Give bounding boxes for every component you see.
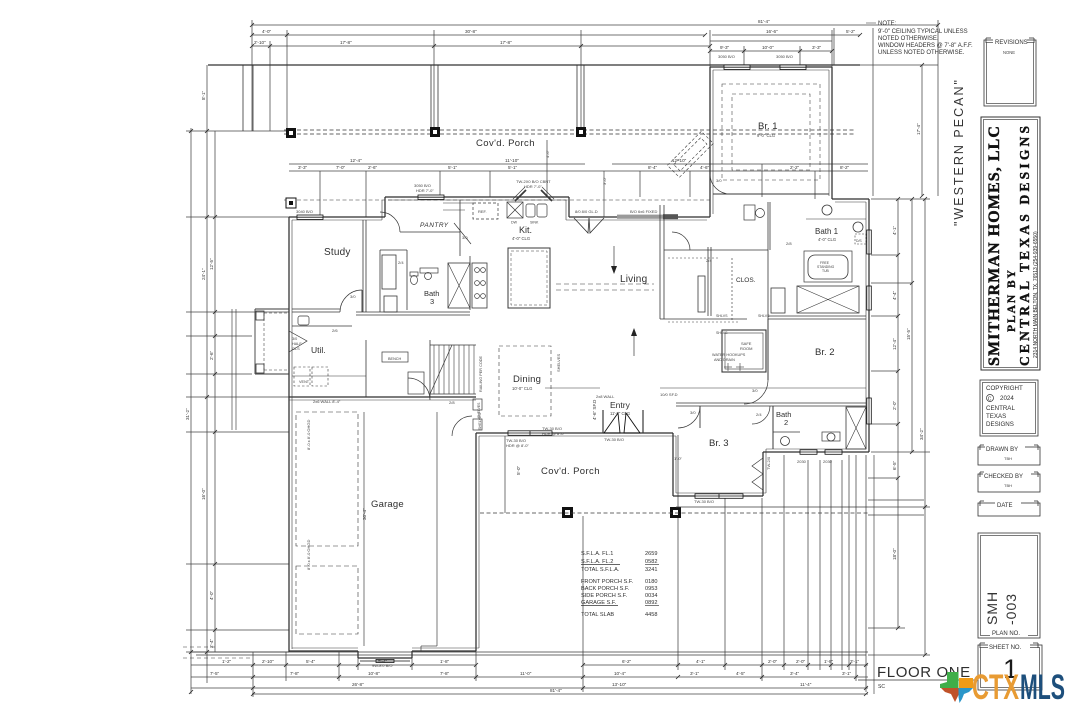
svg-text:Util.: Util. — [311, 345, 326, 355]
svg-text:3'-1": 3'-1" — [690, 671, 700, 676]
closet: stair closet — [382, 255, 396, 289]
WALLSTART — [208, 65, 860, 200]
svg-text:WATER HOOKUPS: WATER HOOKUPS — [712, 353, 746, 357]
porch column square 2 — [430, 127, 440, 137]
DIMSTART — [186, 20, 938, 697]
util: sink box on wall — [298, 316, 309, 325]
INTSTART — [292, 84, 866, 490]
svg-text:2/8: 2/8 — [786, 241, 792, 246]
mud hall shelves boxes — [473, 399, 482, 410]
window: kitchen front 1 — [418, 195, 444, 200]
svg-text:NOTE:: NOTE: — [878, 21, 897, 27]
window: rear wall TW-30 — [508, 431, 552, 436]
svg-text:4'-5": 4'-5" — [736, 671, 746, 676]
wall: util top — [292, 325, 352, 327]
svg-text:B/O 6x6 FIXED: B/O 6x6 FIXED — [630, 209, 657, 214]
svg-text:9'-0" CEILING TYPICAL UNLESS: 9'-0" CEILING TYPICAL UNLESS — [878, 29, 968, 35]
svg-text:Cov'd. Porch: Cov'd. Porch — [476, 138, 535, 149]
dimension line: right col 15'-5" — [911, 199, 913, 452]
water hookup symbols — [727, 363, 729, 371]
svg-text:10/0 SF.D: 10/0 SF.D — [660, 392, 678, 397]
door: util half-glass wedge — [289, 331, 307, 352]
bath1: vanity counter — [806, 218, 866, 220]
exterior wall: br3 left — [672, 433, 674, 496]
bath2: vanity — [773, 431, 800, 433]
CTXMLS logo: texas icon orange quadrant — [959, 678, 973, 688]
dimension extension horizontals right — [871, 198, 930, 200]
window: right wall tub — [867, 230, 872, 254]
svg-text:7'-8": 7'-8" — [440, 671, 450, 676]
interior dim verticals study area — [319, 171, 321, 217]
svg-text:C: C — [988, 396, 992, 402]
drawing title: FLOOR ONE — [858, 664, 975, 690]
svg-text:2'-10": 2'-10" — [254, 40, 266, 45]
svg-text:SMH: SMH — [984, 591, 1000, 625]
porch column square 1 — [286, 128, 296, 138]
svg-text:81'-4": 81'-4" — [550, 688, 562, 693]
svg-text:Entry: Entry — [610, 400, 631, 410]
util: lau crate box — [408, 372, 424, 394]
garage door bay 2 dashed — [296, 566, 358, 634]
svg-text:S.F.L.A. FL.1: S.F.L.A. FL.1 — [581, 551, 613, 557]
exterior wall: br3 right — [762, 452, 764, 496]
exterior wall: garage right — [475, 433, 477, 651]
svg-text:10'-0": 10'-0" — [762, 45, 774, 50]
date box — [978, 499, 1040, 516]
main title box — [981, 117, 1040, 370]
exterior wall: rear wall — [476, 432, 673, 434]
svg-text:S.F.L.A. FL.2: S.F.L.A. FL.2 — [581, 559, 613, 565]
garage slab recess line — [436, 412, 438, 646]
svg-text:2314 NORTH MAIN BELTON, TX. 76: 2314 NORTH MAIN BELTON, TX. 76513 (254-9… — [1033, 231, 1039, 358]
svg-text:TBH: TBH — [1004, 483, 1012, 488]
svg-text:10'-8": 10'-8" — [368, 671, 380, 676]
dimension line: left col 2 — [206, 65, 208, 683]
kitchen: counter edge — [469, 256, 471, 310]
wall: clos right — [767, 202, 769, 330]
tick marks on dimension lines — [189, 23, 940, 696]
window: bath2 bottom 2 — [825, 450, 842, 455]
master hall: door arcs at br1 — [672, 232, 690, 250]
bath1: linen — [771, 288, 785, 313]
dimension line: top row 3 — [252, 45, 438, 47]
exterior wall: right side — [868, 199, 870, 452]
svg-text:SHELVES: SHELVES — [478, 412, 482, 430]
svg-text:3/0: 3/0 — [690, 410, 696, 415]
svg-text:Br. 2: Br. 2 — [815, 347, 835, 358]
garage door bay 1 dashed — [296, 412, 358, 546]
svg-text:2659: 2659 — [645, 551, 657, 557]
svg-text:4'-6": 4'-6" — [700, 165, 710, 170]
svg-text:BACK PORCH S.F.: BACK PORCH S.F. — [581, 586, 630, 592]
door: mud hall arcs — [408, 378, 430, 400]
door: study arc — [340, 290, 362, 312]
svg-text:3050 B/O: 3050 B/O — [718, 54, 735, 59]
dining: dashed clg rect — [499, 346, 551, 416]
svg-text:0953: 0953 — [645, 586, 657, 592]
svg-text:2/6: 2/6 — [332, 328, 338, 333]
sheet no box — [978, 641, 1042, 690]
svg-text:SHELVES: SHELVES — [556, 354, 561, 372]
svg-text:BENCH: BENCH — [388, 357, 402, 361]
exterior wall: right return to side wall — [832, 198, 869, 200]
square footage table — [581, 551, 659, 618]
svg-text:HALF: HALF — [292, 342, 302, 346]
stairs: diagonal break — [430, 345, 452, 394]
svg-text:SC: SC — [878, 684, 885, 690]
exterior wall: br3 bottom — [673, 495, 763, 497]
br1: clg dashed rects — [722, 84, 820, 180]
wall: pantry right — [459, 200, 461, 256]
bath3: sink — [425, 273, 432, 280]
svg-text:TW-30 B/O: TW-30 B/O — [604, 437, 624, 442]
bath2: shower X — [846, 407, 866, 449]
linen closet — [384, 296, 397, 312]
svg-text:5'-1": 5'-1" — [508, 165, 518, 170]
svg-text:6'-5": 6'-5" — [892, 460, 897, 470]
dimension line: right col 34'-2" — [924, 199, 926, 655]
exterior wall: front living — [569, 216, 710, 218]
wall: master hall bottom — [660, 318, 747, 320]
door: pantry diagonal — [454, 223, 471, 244]
svg-text:5'-2": 5'-2" — [846, 29, 856, 34]
LOGOSTART — [940, 668, 1065, 707]
kitchen: range — [472, 263, 487, 308]
kitchen: sink basins — [526, 204, 535, 217]
svg-text:8'-0 x 8'-0 OHGD: 8'-0 x 8'-0 OHGD — [306, 539, 311, 570]
svg-text:11'-8" CLG: 11'-8" CLG — [610, 411, 630, 416]
svg-text:2/4: 2/4 — [706, 258, 712, 263]
svg-text:2024: 2024 — [1000, 395, 1014, 402]
svg-text:11'-0": 11'-0" — [520, 671, 532, 676]
svg-text:17'-8": 17'-8" — [340, 40, 352, 45]
svg-text:3050 B/O: 3050 B/O — [776, 54, 793, 59]
wall: master hall/closet divider — [707, 247, 709, 316]
kitchen: window-seat X box — [507, 202, 523, 218]
svg-text:TEXAS: TEXAS — [986, 413, 1006, 420]
door: bath2 arc — [752, 406, 770, 424]
svg-text:TW-30 B/O: TW-30 B/O — [694, 499, 714, 504]
svg-text:30'-4": 30'-4" — [362, 508, 367, 520]
svg-text:3241: 3241 — [645, 567, 657, 573]
svg-text:2030: 2030 — [797, 459, 807, 464]
svg-text:8'-1": 8'-1" — [201, 90, 206, 100]
bath1: sink circles — [822, 205, 832, 215]
svg-text:7'-8": 7'-8" — [290, 671, 300, 676]
svg-text:7'-5": 7'-5" — [210, 671, 220, 676]
svg-text:COPYRIGHT: COPYRIGHT — [986, 385, 1023, 392]
svg-text:4'-6": 4'-6" — [545, 149, 550, 158]
kitchen: corner cabinet diagonal left — [515, 190, 526, 201]
master hall: lau box — [744, 205, 755, 220]
stoop post top — [256, 311, 264, 320]
wall: garage/house divider — [289, 396, 476, 398]
wall: bath3 left — [406, 250, 408, 310]
window: Br1 top 1 — [724, 65, 750, 70]
svg-text:2/4: 2/4 — [756, 412, 762, 417]
svg-text:16'-0": 16'-0" — [201, 488, 206, 500]
bath3: toilet — [411, 276, 418, 285]
CTXMLS logo: texas icon red quadrant — [941, 688, 959, 702]
svg-text:2'-4": 2'-4" — [209, 638, 214, 648]
wall: study bottom — [292, 311, 340, 313]
kitchen: REF dashed box — [473, 203, 498, 219]
svg-text:MLS: MLS — [1020, 668, 1065, 707]
svg-text:81'-4": 81'-4" — [758, 19, 770, 24]
svg-text:Br. 1: Br. 1 — [758, 121, 778, 132]
mid interior dim row at util — [292, 375, 366, 377]
svg-text:Cov'd. Porch: Cov'd. Porch — [541, 466, 600, 477]
svg-text:5'-4": 5'-4" — [378, 659, 388, 664]
dimension line: right col 17'-4" — [921, 65, 923, 196]
svg-text:3'-0": 3'-0" — [602, 176, 607, 185]
porch roof line top — [208, 64, 860, 66]
svg-text:12'-4": 12'-4" — [350, 158, 362, 163]
svg-text:5'-0": 5'-0" — [516, 465, 521, 475]
svg-text:HDR 7'-0": HDR 7'-0" — [524, 184, 542, 189]
wall: pantry bottom — [400, 231, 460, 233]
wall: study right — [365, 220, 367, 312]
wall: bath2 left — [772, 406, 774, 449]
svg-text:4'-6" SF.D: 4'-6" SF.D — [592, 399, 597, 420]
svg-text:6'-2": 6'-2" — [622, 659, 632, 664]
svg-text:CENTRAL: CENTRAL — [986, 405, 1015, 412]
front porch deck edge dashed — [284, 129, 855, 131]
svg-text:AND DRAIN: AND DRAIN — [714, 358, 735, 362]
svg-text:2'-0": 2'-0" — [796, 659, 806, 664]
svg-text:17'-8": 17'-8" — [500, 40, 512, 45]
svg-text:3'-1": 3'-1" — [842, 671, 852, 676]
svg-text:3/0: 3/0 — [462, 235, 468, 240]
svg-text:4'-1": 4'-1" — [696, 659, 706, 664]
dimension line: top row 81'-4" — [252, 24, 938, 26]
svg-text:PLAN NO.: PLAN NO. — [992, 631, 1020, 637]
svg-text:11'-10": 11'-10" — [505, 158, 519, 163]
svg-text:4'-4": 4'-4" — [892, 290, 897, 300]
svg-text:PANTRY: PANTRY — [420, 222, 449, 229]
safe room walls — [722, 330, 766, 372]
exterior wall: front main kitchen — [385, 196, 569, 198]
svg-text:UNLESS NOTED OTHERWISE.: UNLESS NOTED OTHERWISE. — [878, 50, 965, 56]
svg-text:4'-0" CLG: 4'-0" CLG — [818, 237, 836, 242]
svg-text:CHECKED BY: CHECKED BY — [984, 474, 1023, 480]
wall: br2 left — [767, 319, 769, 380]
svg-text:3/0: 3/0 — [292, 337, 297, 341]
wall: clos top — [664, 249, 768, 251]
window: bath2 bottom 1 — [800, 450, 817, 455]
exterior wall inner faces — [291, 220, 293, 649]
svg-text:RAILING PER CODE: RAILING PER CODE — [479, 355, 483, 392]
svg-text:3040 B/O: 3040 B/O — [296, 209, 313, 214]
svg-text:2x8 WALL: 2x8 WALL — [596, 394, 615, 399]
svg-text:HDR 7'-0": HDR 7'-0" — [416, 188, 434, 193]
entry hall interior dim row — [660, 387, 866, 389]
wall: util/stair divider — [365, 340, 367, 397]
living: electric fireplace builtin — [698, 276, 705, 312]
svg-text:0034: 0034 — [645, 593, 657, 599]
stairs: lower flight treads — [433, 345, 435, 394]
svg-text:0892: 0892 — [645, 600, 657, 606]
svg-text:8/0 8/0 GL.D: 8/0 8/0 GL.D — [575, 209, 598, 214]
svg-text:Br. 3: Br. 3 — [709, 438, 729, 449]
svg-text:2030: 2030 — [823, 459, 833, 464]
svg-text:2'-2": 2'-2" — [790, 165, 800, 170]
svg-text:0180: 0180 — [645, 579, 657, 585]
bath1: shower X box — [797, 286, 859, 313]
exterior wall: Br1 wing left — [709, 67, 711, 217]
svg-text:CTX: CTX — [972, 668, 1019, 707]
svg-text:3'-1": 3'-1" — [850, 659, 860, 664]
exterior wall: Br1 wing right — [831, 67, 833, 199]
svg-text:DRAWN BY: DRAWN BY — [986, 447, 1018, 453]
CTXMLS logo: texas icon green quadrant — [940, 672, 959, 688]
porch post mid pair — [430, 65, 432, 128]
svg-text:1'-8": 1'-8" — [440, 659, 450, 664]
svg-text:4458: 4458 — [645, 612, 657, 618]
svg-text:TUB: TUB — [822, 269, 830, 273]
svg-text:34'-2": 34'-2" — [919, 428, 924, 440]
window: Br1 top 2 — [780, 65, 806, 70]
porch roofline dashed above front wall — [284, 199, 710, 201]
svg-text:4'-0": 4'-0" — [209, 590, 214, 600]
drawn by box — [978, 443, 1040, 465]
svg-text:HDR @ 8'-0": HDR @ 8'-0" — [542, 431, 565, 436]
svg-text:7'-0": 7'-0" — [336, 165, 346, 170]
porch post left pair — [242, 65, 244, 131]
svg-text:3'-3": 3'-3" — [298, 165, 308, 170]
svg-text:WINDOW HEADERS @ 7'-8" A.F.F.: WINDOW HEADERS @ 7'-8" A.F.F. — [878, 43, 973, 49]
svg-text:GARAGE S.F.: GARAGE S.F. — [581, 600, 617, 606]
dimension line: left col 31'-2" — [190, 128, 192, 694]
bath1: vanity wall — [769, 202, 771, 250]
porch column square front-wall row — [286, 198, 296, 208]
revisions box — [984, 36, 1036, 106]
svg-text:24'-1": 24'-1" — [201, 268, 206, 280]
svg-text:FRONT PORCH S.F.: FRONT PORCH S.F. — [581, 579, 634, 585]
svg-text:1'-8": 1'-8" — [824, 659, 834, 664]
svg-text:12'-10": 12'-10" — [672, 158, 687, 163]
TEXTSTART — [185, 19, 924, 693]
svg-text:10'-4": 10'-4" — [614, 671, 626, 676]
svg-text:Bath 1: Bath 1 — [815, 227, 839, 236]
svg-text:12'-4": 12'-4" — [892, 338, 897, 350]
dimension line: left inner col — [214, 131, 216, 652]
svg-text:SHLVS: SHLVS — [716, 314, 728, 318]
svg-text:11'-4": 11'-4" — [800, 682, 812, 687]
svg-text:9'-0" CLG: 9'-0" CLG — [757, 133, 775, 138]
svg-text:2/4: 2/4 — [398, 260, 404, 265]
dimension line: right col segs — [897, 199, 899, 628]
fireplace: optional diagonal dashed — [667, 131, 713, 177]
exterior wall: bath2 bottom — [763, 451, 869, 453]
note block top right — [866, 21, 973, 56]
pantry: shelf lines — [443, 202, 473, 204]
svg-text:2'-10": 2'-10" — [262, 659, 274, 664]
svg-text:4'-0" CLG: 4'-0" CLG — [512, 236, 530, 241]
svg-text:2x6 WALL 8'-4": 2x6 WALL 8'-4" — [313, 399, 341, 404]
door: rear entry double — [604, 413, 640, 433]
window: living 6x6 fixed gray bar — [617, 215, 678, 219]
svg-text:Living: Living — [620, 274, 647, 285]
svg-text:8'-4": 8'-4" — [648, 165, 658, 170]
svg-text:SHLVS: SHLVS — [758, 314, 770, 318]
window: br3 bottom — [695, 494, 743, 499]
svg-text:Garage: Garage — [371, 499, 404, 510]
dimension extension verticals bottom — [252, 652, 254, 697]
svg-text:Study: Study — [324, 247, 351, 258]
svg-text:2'-6": 2'-6" — [209, 350, 214, 360]
svg-text:Dining: Dining — [513, 374, 541, 385]
bottom porch column square 2 — [670, 507, 681, 518]
svg-text:0582: 0582 — [645, 559, 657, 565]
dimension extension verticals top — [251, 20, 253, 131]
side porch ext lines right — [868, 455, 924, 694]
svg-text:SINK: SINK — [530, 221, 539, 225]
wall: entry left — [602, 410, 604, 433]
wall: hall bottom / br3 top — [676, 402, 866, 404]
slab bottom left dashes — [183, 646, 215, 648]
living: vault arrows — [613, 246, 615, 272]
window: right wall shower — [867, 286, 872, 310]
svg-text:13'-10": 13'-10" — [612, 682, 627, 687]
exterior wall: left side full height — [288, 217, 290, 652]
stoop post bottom — [256, 364, 264, 373]
bath1: tub — [808, 255, 848, 279]
bottom porch column square 1 — [562, 507, 573, 518]
svg-text:TOTAL S.F.L.A.: TOTAL S.F.L.A. — [581, 567, 620, 573]
checked by box — [978, 470, 1040, 492]
svg-text:3'-3": 3'-3" — [812, 45, 822, 50]
svg-text:ROOM: ROOM — [740, 346, 752, 351]
slab bottom lines — [191, 651, 868, 653]
clos: shelves dashed — [668, 257, 718, 259]
dimension line: top row 2 — [252, 34, 705, 36]
svg-text:DESIGNS: DESIGNS — [986, 421, 1014, 428]
svg-text:30'-8": 30'-8" — [465, 29, 477, 34]
svg-text:10'-0" CLG: 10'-0" CLG — [512, 386, 532, 391]
garage door marks — [360, 660, 410, 663]
exterior wall: Br1 wing top — [710, 66, 832, 68]
svg-text:2'-0": 2'-0" — [892, 400, 897, 410]
svg-text:4'-1": 4'-1" — [892, 225, 897, 235]
wall: hall/bath3 left — [379, 250, 381, 312]
wall: bath3 top — [380, 249, 407, 251]
util: washer dryer dashed — [294, 367, 310, 386]
svg-text:REVISIONS: REVISIONS — [995, 40, 1028, 46]
svg-text:SMITHERMAN HOMES, LLC: SMITHERMAN HOMES, LLC — [986, 126, 1003, 366]
svg-text:TW-2/0: TW-2/0 — [766, 456, 771, 470]
kitchen: island — [508, 248, 550, 308]
svg-text:-003: -003 — [1003, 593, 1019, 625]
svg-text:31'-2": 31'-2" — [185, 408, 190, 420]
door: br3 arc — [678, 406, 700, 428]
svg-text:8'-2": 8'-2" — [840, 165, 850, 170]
door: pantry arc — [380, 212, 400, 232]
svg-text:DW: DW — [511, 221, 518, 225]
svg-text:NOTED OTHERWISE.: NOTED OTHERWISE. — [878, 36, 939, 42]
dimension extension horizontals left — [186, 130, 289, 132]
copyright box — [980, 380, 1038, 436]
svg-text:3/0: 3/0 — [350, 294, 356, 299]
left stoop bump — [255, 308, 289, 310]
svg-text:26'-8": 26'-8" — [352, 682, 364, 687]
svg-text:3/0: 3/0 — [752, 388, 758, 393]
kitchen: corner cabinet diagonal right — [541, 190, 552, 201]
svg-text:8'-0 x 8'-0 OHGD: 8'-0 x 8'-0 OHGD — [306, 419, 311, 450]
svg-text:HDR @ 8'-0": HDR @ 8'-0" — [506, 443, 529, 448]
svg-text:5'-1": 5'-1" — [448, 165, 458, 170]
exterior wall: front of study — [289, 216, 385, 218]
